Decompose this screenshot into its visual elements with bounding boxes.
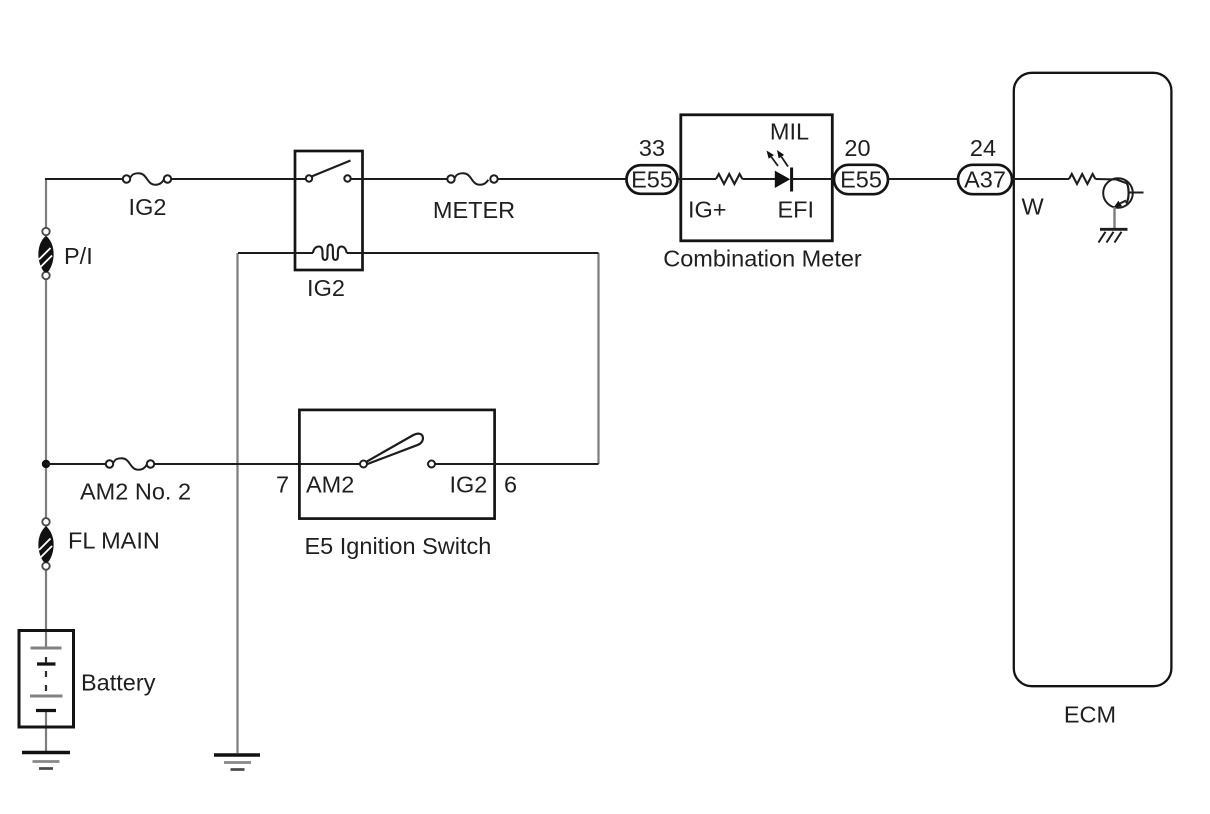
fusible link FL MAIN	[38, 518, 53, 570]
relay switch	[306, 161, 351, 182]
combination meter box	[681, 115, 833, 241]
wire A37 to resistor ECM	[1012, 178, 1069, 180]
wire ignition switch IG2 riser vertical	[597, 253, 599, 464]
ignition switch box E5	[299, 410, 494, 519]
connector E55 pin 20	[834, 165, 888, 194]
svg-text:IG2: IG2	[450, 472, 488, 498]
ground relay coil	[214, 755, 260, 770]
wire relay coil to ground vertical	[236, 253, 238, 753]
svg-text:METER: METER	[433, 197, 515, 223]
svg-text:E55: E55	[631, 167, 673, 193]
svg-text:Combination Meter: Combination Meter	[663, 246, 862, 272]
fuse AM2 No. 2	[106, 458, 154, 470]
wire LED to E55 pin 20	[792, 178, 834, 180]
svg-text:Battery: Battery	[81, 670, 156, 696]
wire main feed to fuse IG2	[45, 178, 123, 180]
battery plates	[30, 648, 63, 711]
fuse METER	[447, 173, 497, 185]
svg-text:ECM: ECM	[1064, 702, 1116, 728]
resistor ECM	[1069, 174, 1095, 184]
wire ignition switch IG2 out	[435, 463, 599, 465]
svg-text:IG2: IG2	[307, 275, 345, 301]
wire fuse METER to connector E55	[498, 178, 626, 180]
svg-text:AM2 No. 2: AM2 No. 2	[80, 479, 191, 505]
wire battery top vertical	[45, 179, 47, 228]
svg-text:IG2: IG2	[129, 194, 167, 220]
svg-text:EFI: EFI	[778, 197, 815, 223]
svg-text:E55: E55	[840, 167, 882, 193]
wire E55 to A37	[888, 178, 958, 180]
LED MIL diode	[767, 150, 792, 192]
node junction battery feed	[42, 460, 50, 468]
svg-text:FL MAIN: FL MAIN	[68, 528, 160, 554]
wire resistor to LED	[742, 178, 775, 180]
relay coil	[238, 245, 599, 260]
wire relay to fuse METER	[351, 178, 448, 180]
ECM box	[1014, 73, 1172, 686]
wire resistor to transistor	[1095, 178, 1119, 181]
wire junction to fuse AM2	[46, 463, 106, 465]
fuse IG2	[123, 173, 171, 185]
relay IG2 box	[295, 151, 363, 270]
svg-text:33: 33	[639, 135, 665, 161]
transistor ECM	[1103, 178, 1143, 208]
wire fuse AM2 to ignition switch	[155, 463, 361, 465]
svg-text:6: 6	[504, 472, 517, 498]
wire fuse IG2 to relay	[172, 178, 307, 180]
svg-text:AM2: AM2	[306, 472, 354, 498]
svg-text:IG+: IG+	[688, 197, 727, 223]
svg-text:7: 7	[276, 472, 289, 498]
wire transistor to ECM ground	[1113, 207, 1115, 229]
svg-text:MIL: MIL	[770, 119, 809, 145]
svg-text:24: 24	[970, 135, 996, 161]
wire E55 to resistor	[677, 178, 716, 180]
fusible link P/I	[38, 228, 53, 279]
wire vertical P/I to junction to battery	[45, 279, 47, 647]
connector E55 pin 33	[627, 165, 678, 194]
ground ECM	[1099, 229, 1128, 242]
svg-text:E5 Ignition Switch: E5 Ignition Switch	[305, 533, 492, 559]
svg-text:P/I: P/I	[64, 243, 93, 269]
ignition switch contacts	[360, 434, 435, 468]
ground battery	[22, 753, 70, 769]
battery box	[19, 631, 74, 728]
svg-text:A37: A37	[964, 167, 1006, 193]
svg-text:W: W	[1022, 194, 1045, 220]
wire battery to ground	[45, 712, 47, 752]
connector A37 pin 24	[958, 165, 1012, 194]
resistor combination meter	[716, 174, 742, 184]
svg-text:20: 20	[844, 135, 870, 161]
